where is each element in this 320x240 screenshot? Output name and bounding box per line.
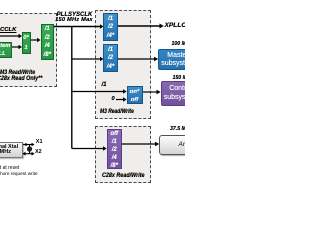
divider M3 /1 /2 /4* <box>103 44 118 72</box>
note C28x Read/Write <box>102 173 145 179</box>
wire to Master subsystem <box>118 57 158 61</box>
Control subsystem <box>161 81 201 106</box>
crystal <box>27 145 32 154</box>
label /1 <box>102 82 107 88</box>
note M3 Read/Write, C28x Read Only <box>0 70 35 76</box>
oscillator OSCCLK label <box>0 27 16 33</box>
footnote semaphore request write <box>0 171 38 176</box>
label 0 <box>112 96 115 102</box>
label XPLLCLKOUT <box>165 22 209 29</box>
note M3 Read/Write <box>100 109 134 115</box>
wire branch /1 to on-off gate <box>72 89 127 93</box>
gate on*/off <box>127 86 143 104</box>
wire XPLLCLK output <box>118 24 164 29</box>
divider /1 /2 /4 /8* <box>41 24 55 61</box>
wire branch to C28x divider <box>72 146 107 150</box>
wire trunk vertical <box>71 27 73 149</box>
wire X2 pin <box>22 152 34 156</box>
dashed region: M3 Read/Write clock-source group <box>0 13 57 87</box>
label PLLSYSCLK <box>53 12 96 18</box>
Master subsystem <box>158 49 198 70</box>
dashed region: M3 Read/Write divider group <box>95 10 151 119</box>
divider XPLLCLK /1 /2 /4* <box>103 13 118 41</box>
pin X1 <box>36 139 43 145</box>
divider C28x off /1 /2 /4 /8* <box>107 129 123 169</box>
wire PLLSYSCLK main <box>54 24 103 28</box>
ADC analog label <box>179 141 199 148</box>
System PLL <box>0 42 12 59</box>
mux 0*/1 <box>22 32 31 54</box>
wire to Control subsystem <box>143 90 161 94</box>
wire mux to divider <box>31 38 41 42</box>
label 100 MHz <box>172 41 193 47</box>
pin X2 <box>35 149 42 155</box>
ADC analog block <box>159 135 219 155</box>
dashed region: C28x Read/Write divider group <box>95 126 151 183</box>
label 37.5 MHz <box>170 126 192 132</box>
label 150 MHz Max <box>51 17 97 23</box>
label 150 MHz <box>173 75 194 81</box>
footnote default at reset <box>0 165 19 171</box>
wire X1 pin <box>23 143 35 147</box>
wire branch to M3 divider <box>72 57 104 61</box>
wire 0 stub into on-off gate <box>116 97 127 101</box>
wire OSCCLK into mux <box>0 34 22 38</box>
wire System PLL to mux <box>12 45 23 49</box>
wire to ADC <box>122 142 159 146</box>
crystal block External Xtal 20 MHz <box>0 142 23 159</box>
